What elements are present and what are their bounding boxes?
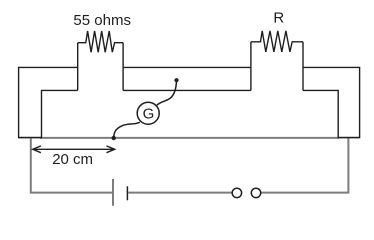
svg-text:R: R <box>273 9 284 26</box>
svg-text:G: G <box>143 105 155 122</box>
svg-text:20 cm: 20 cm <box>52 151 93 168</box>
svg-text:55 ohms: 55 ohms <box>73 12 131 29</box>
